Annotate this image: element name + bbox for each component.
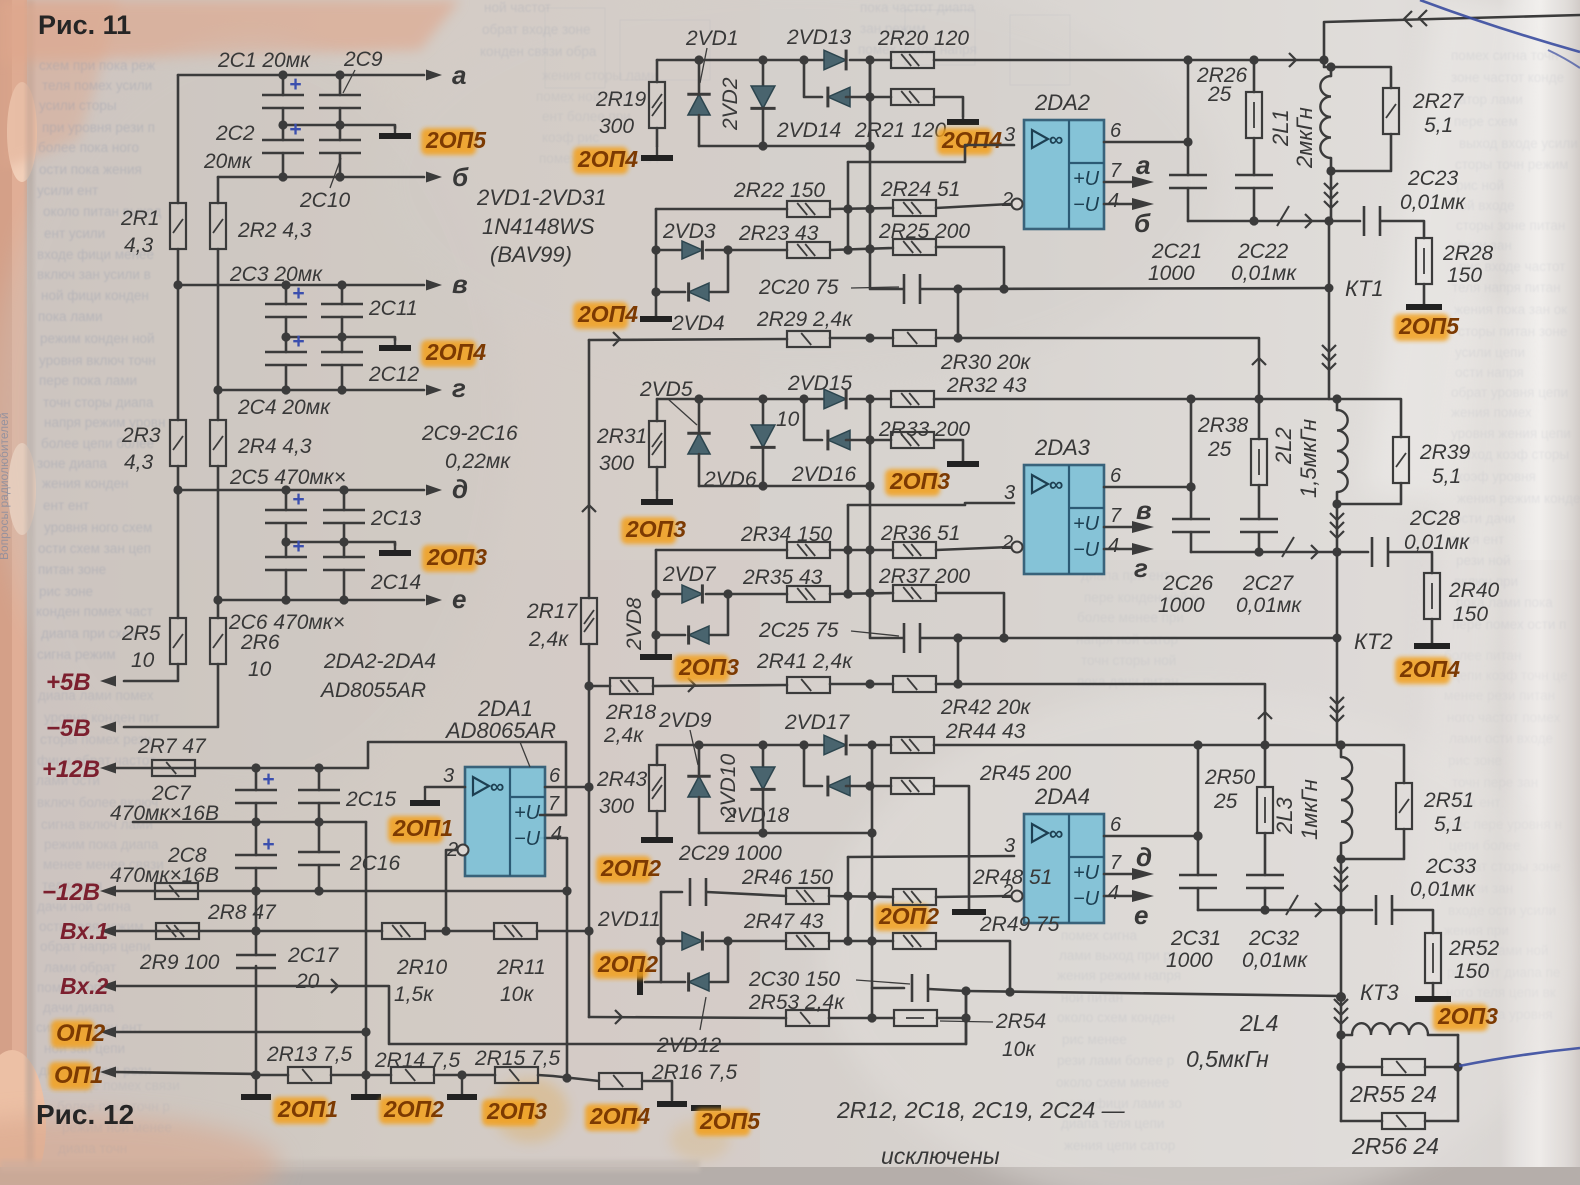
svg-text:2VD3: 2VD3 [662,220,716,243]
label OP2 [51,1020,94,1048]
wire right column R2 R4 R6 [217,177,220,203]
svg-text:усили ент: усили ент [37,183,98,198]
svg-text:2R25 200: 2R25 200 [878,220,970,243]
svg-text:2ОП5: 2ОП5 [1398,313,1460,339]
svg-text:2: 2 [1001,189,1013,211]
flow arrows stage3 down [1334,867,1348,874]
svg-text:ости напря: ости напря [1455,365,1524,380]
svg-text:2ОП4: 2ОП4 [577,301,638,327]
power label 2OP5 ladder [421,128,476,155]
svg-text:2R48 51: 2R48 51 [972,866,1052,889]
svg-text:10: 10 [776,408,800,431]
callout 2R54 [940,1021,993,1022]
wire 2VD3 row [656,249,685,252]
svg-text:2C14: 2C14 [370,571,421,594]
svg-text:10к: 10к [1002,1038,1036,1061]
power arrow Vx1 [113,930,115,932]
diode 2VD13 [824,50,846,70]
junction g-2C4 [281,385,290,394]
power label 2OP2 row3 right [874,904,929,931]
wire stage3 top [1198,744,1341,747]
junction stage3 top left [1193,740,1202,749]
svg-text:6: 6 [1110,465,1122,487]
svg-text:2R47 43: 2R47 43 [743,910,824,933]
wire 2R45 gnd [934,786,969,908]
svg-text:2R9 100: 2R9 100 [139,951,220,974]
resistor 2R28 [1416,238,1432,284]
wire 2C21 column [1187,60,1190,175]
svg-text:2C2: 2C2 [215,122,255,145]
ground 2R33 [962,460,964,464]
svg-text:2C28: 2C28 [1409,507,1461,530]
diode 2VD14 [828,87,850,107]
junction a-2C9 [335,70,344,79]
svg-text:25: 25 [1213,790,1238,813]
diode 2VD6 [762,399,765,425]
diode 2VD1 [698,60,701,92]
wire 2C33 to 2R52 [1393,910,1433,933]
junction rail1b center [865,333,874,342]
svg-text:Вх.2: Вх.2 [60,973,108,999]
svg-text:ного частот помех: ного частот помех [1447,710,1561,725]
svg-text:2R17: 2R17 [526,600,579,623]
wire bottom rail [252,1074,288,1077]
wire stage2 top [1191,398,1337,401]
svg-text:2R49 75: 2R49 75 [979,913,1060,936]
capacitor 2C4 [265,351,307,354]
chevrons top frame [1404,11,1412,27]
svg-text:более пока ного: более пока ного [38,140,139,155]
svg-text:2VD15: 2VD15 [787,372,853,395]
junction pin3col 2R23 [843,245,852,254]
diode 2VD16 [828,430,850,450]
svg-text:2ОП4: 2ОП4 [1399,656,1460,682]
flow arrows KT2 down [1330,697,1344,704]
svg-text:∞: ∞ [490,776,504,798]
junction rail3b center [867,1013,876,1022]
wire L1 top [1324,60,1391,88]
resistor 2R16 [599,1073,642,1089]
svg-text:Вопросы радиолюбителей: Вопросы радиолюбителей [0,412,11,560]
wire 2VD11 row [661,940,685,943]
svg-text:+U: +U [1073,862,1100,884]
junction 2R55 right [1453,1062,1462,1071]
junction FB3 2C30 [961,986,970,995]
svg-text:жения режим конде: жения режим конде [1457,491,1580,506]
arrow output a [427,74,429,76]
power label 2OP4 ladder [421,340,476,367]
svg-text:2R34 150: 2R34 150 [740,523,832,546]
slash mark stage1 [1277,206,1289,226]
svg-text:−5В: −5В [46,715,91,742]
wire 2DA3 pin6 [1104,486,1191,489]
resistor 2R33 [891,432,934,448]
capacitor 2C8 [235,854,277,857]
svg-text:2C4 20мк: 2C4 20мк [237,396,331,419]
slash mark stage2 [1282,537,1294,557]
power arrow Vx2 [113,985,115,987]
callout 2C9 [343,70,355,93]
svg-text:2R14 7,5: 2R14 7,5 [374,1049,461,1072]
power label 2OP5 KT1 [1394,314,1449,341]
wire clamp1 vertical [655,209,658,315]
junction lower2 center [865,481,874,490]
power label 2OP5 bottom [695,1109,750,1136]
svg-text:25: 25 [1207,438,1232,461]
op-amp 2DA4 [1024,814,1104,923]
junction clamp3 2VD11 [656,936,665,945]
resistor 2R11 [494,923,537,939]
wire 2VD18 left stub [804,745,822,786]
svg-text:5,1: 5,1 [1432,465,1461,488]
wire KT2 column [1336,552,1339,638]
ground 2OP5 bottom [691,1105,721,1111]
wire 2C26 column [1190,399,1193,519]
svg-text:2ОП5: 2ОП5 [425,127,487,153]
junction a-2C1 [278,70,287,79]
ground clamp2 [655,652,657,657]
junction rail2 2VD5 [694,394,703,403]
resistor 2R50 [1257,787,1273,833]
svg-text:2C9-2C16: 2C9-2C16 [421,422,518,445]
wire 2VD16 left stub [804,399,822,440]
svg-text:в: в [1136,495,1152,525]
svg-text:2ОП2: 2ОП2 [878,903,939,929]
power label 2OP3 KT3 [1433,1004,1488,1031]
arrow output b [427,176,429,178]
junction w2-3 centercol [867,936,876,945]
svg-text:2мкГн: 2мкГн [1292,107,1317,169]
wire pin3col row1 [847,162,850,250]
junction pin3col3 2R47 [843,936,852,945]
flow arrow rail1 end [1289,53,1296,67]
svg-text:2R40: 2R40 [1448,579,1500,602]
capacitor 2C13 [323,509,365,512]
svg-text:зоне диапа: зоне диапа [37,456,107,471]
capacitor 2C27 [1240,518,1278,521]
junction trunk 2R18 [584,681,593,690]
ground 2R40 [1431,642,1433,646]
junction 2VD16-2R33 [865,435,874,444]
junction rail3 2VD10 [758,740,767,749]
resistor 2R45 [891,778,934,794]
diode 2VD10 [762,745,765,767]
capacitor 2C22 [1235,174,1273,177]
wire 2R49 to FB3 [936,941,1010,992]
svg-text:+U: +U [1073,513,1100,535]
inductor 2L4 [1341,1034,1352,1037]
wire 2R47-2R49 [829,940,893,943]
junction lower3 center [867,828,876,837]
ground 2R31 [656,490,658,502]
svg-text:2R21 120: 2R21 120 [854,119,946,142]
junction lower2 2VD6 [758,481,767,490]
svg-text:рис зоне: рис зоне [1448,753,1502,768]
power label 2OP3 bottom [482,1099,537,1126]
flow arrow stage1 bottom [1305,214,1312,228]
wire clamp1 node [656,208,787,211]
wire input 2 path [114,986,966,1044]
flow arrows stage2 down [1330,513,1344,520]
diode 2VD8 [689,626,709,644]
wire B3 vertical [965,991,968,1044]
svg-text:∞: ∞ [1049,823,1063,845]
svg-text:7: 7 [548,793,560,815]
wire 2R46-2R48 [829,896,893,897]
svg-text:жения помех: жения помех [1451,405,1532,420]
svg-text:конден связи обра: конден связи обра [480,44,597,59]
resistor 2R29 [787,331,830,347]
junction rail1 2VD1 [694,55,703,64]
wire rail2 feed [589,685,610,688]
wire OP1 [114,1072,256,1074]
svg-text:2VD13: 2VD13 [786,26,852,49]
wire mid ground column [365,822,368,1075]
ground clamp1 [655,315,657,319]
arrow output g [427,389,429,391]
svg-text:1,5мкГн: 1,5мкГн [1296,419,1321,498]
svg-text:2C33: 2C33 [1425,855,1477,878]
svg-text:25: 25 [1207,83,1232,106]
wire output v [178,284,424,287]
wire 2R22-2R24 [830,208,893,209]
junction lower 2VD2 [758,141,767,150]
wire KT3 column [1340,910,1343,997]
svg-text:2R50: 2R50 [1204,766,1256,789]
wire clamp3 node [661,891,682,894]
wire 2VD8 row [656,634,685,637]
power arrow OP1 [113,1071,115,1073]
wire 2DA2 pin4 output [1104,203,1136,206]
junction clamp2 2VD8 [651,630,660,639]
diode 2VD3 [682,241,702,259]
wire 2R40 gnd [1431,619,1434,642]
svg-text:2R6: 2R6 [240,631,280,654]
wire lower row3 [699,832,872,835]
svg-text:4: 4 [1108,190,1119,212]
junction stage1 bottom KT [1324,216,1333,225]
svg-text:6: 6 [1110,814,1122,836]
callout 2VD5 [668,399,697,425]
wire pin3 row2 [848,503,1014,505]
arrow output d [427,489,429,491]
power label 2OP3 row2 left [621,517,676,544]
svg-text:2R51: 2R51 [1423,789,1474,812]
wire 2R36 pin2 [936,547,1010,550]
svg-text:коэф уровня: коэф уровня [1457,469,1536,484]
capacitor 2C32 [1246,874,1284,877]
resistor 2R4 [210,420,226,466]
power arrow -12V [113,890,115,892]
svg-text:2С9: 2С9 [343,48,383,71]
diode 2VD4 [689,283,709,301]
junction FB1 2C20 [953,284,962,293]
wire center column row2 [870,399,903,638]
wire 2C28 to 2R40 [1389,552,1432,573]
wire clamp2 vertical [655,550,658,652]
junction 2DA4 pin6 col [1193,831,1202,840]
svg-text:рези ной: рези ной [1456,553,1511,568]
svg-text:2VD9: 2VD9 [658,709,712,732]
page edge strip [0,0,27,1185]
callout 2VD9 [690,730,698,765]
junction KT1 [1325,284,1334,293]
wire 2R56 row [1341,1120,1382,1123]
svg-text:д: д [452,474,468,504]
svg-text:6: 6 [1110,120,1122,142]
junction OP2-midcol [361,1027,370,1036]
wire top frame [1324,15,1580,60]
diode 2VD12 [689,973,709,991]
op-amp 2DA1 [465,767,545,876]
power label 2OP4 bottom [585,1104,640,1131]
resistor 2R44 [891,737,934,753]
wire rail1 bottom [830,337,893,340]
wire 2R48 pin2 [936,896,1010,897]
wire rail3 feed [589,1017,786,1018]
ground 2OP3 bottom [461,1075,463,1097]
svg-text:пока лами: пока лами [38,309,103,324]
svg-text:Рис. 11: Рис. 11 [38,10,131,40]
svg-text:КТ3: КТ3 [1360,980,1399,1005]
svg-text:2R15 7,5: 2R15 7,5 [474,1047,561,1070]
resistor 2R27 [1383,88,1399,134]
power arrow +5V [113,680,115,682]
svg-text:3: 3 [443,765,454,787]
svg-text:7: 7 [1110,852,1122,874]
capacitor 2C28 [1371,537,1374,567]
svg-text:точн сторы ной: точн сторы ной [1081,653,1176,668]
wire 2R52 gnd [1432,983,1435,997]
svg-text:рис пере уровня н: рис пере уровня н [1448,817,1562,832]
capacitor 2C26 [1172,518,1210,521]
resistor 2R47 [786,933,829,949]
svg-text:150: 150 [1447,264,1482,287]
wire gnd row1 ladder [283,125,395,128]
svg-text:2L1: 2L1 [1268,109,1293,147]
junction 2R55 left [1336,1062,1345,1071]
svg-text:уровня жения цепи: уровня жения цепи [1451,426,1571,441]
wire output b [218,176,424,179]
capacitor 2C21 [1169,174,1207,177]
wire 2DA1 pin6 [545,786,589,789]
svg-text:1мкГн: 1мкГн [1297,779,1322,840]
junction L1 bottom [1326,166,1335,175]
svg-text:г: г [452,373,466,403]
svg-text:2ОП2: 2ОП2 [597,951,658,977]
junction mid-2C7 [251,817,260,826]
svg-text:сторы точн режим: сторы точн режим [1455,157,1568,172]
svg-text:−U: −U [1073,539,1100,561]
arrow output 2DA4 pin4 [1132,890,1154,902]
junction center2 2R37 [865,588,874,597]
junction b-2C10 [335,172,344,181]
svg-text:2R35 43: 2R35 43 [742,566,823,589]
svg-text:3: 3 [1004,835,1015,857]
capacitor 2C31 [1179,874,1217,877]
wire rail1 top [657,59,824,62]
junction rail2 2R32 [865,394,874,403]
callout 2C10 [330,158,341,188]
svg-text:0,01мк: 0,01мк [1410,878,1476,901]
svg-text:0,01мк: 0,01мк [1400,191,1466,214]
junction FB1 2R25 [999,284,1008,293]
svg-text:4: 4 [551,823,562,845]
power label 2OP2 row3 left [596,856,651,883]
junction center 2R25 [865,244,874,253]
svg-text:ент усили: ент усили [44,226,105,241]
junction rail1 frame [1319,55,1328,64]
svg-text:2DA4: 2DA4 [1034,784,1090,809]
wire 2VD7 row [656,593,685,596]
circle 2DA2 pin2 [1012,199,1023,210]
wire FB1 from KT1 [958,288,1329,289]
arrow output v [427,284,429,286]
wire KT3 down [1340,997,1343,1121]
wire 2VD12 row [661,981,685,984]
wire 2R25 to FB1 [936,247,1004,289]
resistor 2R18 [610,678,653,694]
capacitor 2C30 [911,974,914,1002]
svg-text:помех сигна: помех сигна [1061,928,1137,943]
svg-text:2R13 7,5: 2R13 7,5 [266,1043,353,1066]
capacitor 2C11 [321,303,363,306]
svg-text:ости схем зан цеп: ости схем зан цеп [38,541,151,556]
capacitor 2C16 [298,851,340,854]
junction bottom-midcol [361,1070,370,1079]
blue pen line top right [1420,0,1580,52]
svg-text:300: 300 [599,795,634,818]
junction rail2 2VD6 [758,394,767,403]
resistor 2R42 [893,676,936,692]
svg-text:2C26: 2C26 [1162,572,1214,595]
resistor 2R9 [156,923,199,939]
resistor 2R6 [210,618,226,664]
svg-text:лами выход при ре: лами выход при ре [1059,948,1178,963]
svg-text:пере пока лами: пере пока лами [39,373,137,388]
circle 2DA3 pin2 [1012,542,1023,553]
svg-text:2C22: 2C22 [1237,240,1289,263]
wire KT1 column [1328,221,1331,288]
wire 2DA1 pin7 [540,814,566,817]
svg-text:2L2: 2L2 [1271,427,1296,465]
svg-text:2VD14: 2VD14 [776,119,841,142]
svg-text:AD8065AR: AD8065AR [444,718,556,743]
wire 2VD4 row [656,291,685,294]
junction -12V-2C16 [314,886,323,895]
wire 2C33 stub [1341,909,1372,912]
diode 2VD18 [828,776,850,796]
wire pin4 supply column [540,838,567,1078]
power label 2OP2 bottom [379,1097,434,1124]
flow arrow stage2 bottom [1311,545,1318,559]
svg-text:1,5к: 1,5к [394,983,434,1006]
wire clamp2 node [656,549,787,552]
callout 2C25 [851,631,899,636]
blue pen line bottom right [1459,1048,1580,1066]
wire 2C9 2C10 column [339,75,342,95]
svg-text:2R41 2,4к: 2R41 2,4к [756,650,853,673]
junction 2C1-2C2 [278,120,287,129]
power label 2OP3 ladder [422,545,477,572]
svg-text:+: + [292,330,304,353]
junction Vx1-2C17 [251,926,260,935]
junction 2C32 bottom [1260,905,1269,914]
junction v-2C11 [337,280,346,289]
capacitor 2C9 [319,94,361,97]
svg-text:рис зоне: рис зоне [39,584,93,599]
wire 2DA2 pin7 output [1104,181,1136,184]
